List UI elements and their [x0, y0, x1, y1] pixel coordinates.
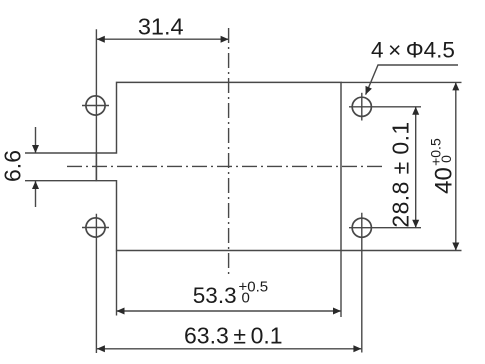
extension line tab top left	[25, 152, 96, 154]
arrowhead 53.3 right	[333, 308, 341, 315]
leader line 4xD4.5	[366, 65, 458, 95]
extension line left hole column upper	[95, 29, 97, 181]
arrowhead 40 top	[452, 82, 459, 90]
part outline (rectangle with left key tab)	[96, 82, 341, 250]
centerline horizontal dash-dot	[67, 165, 382, 167]
label 53.3 +0.5/0	[193, 279, 268, 309]
extension line right hole column lower	[361, 213, 363, 353]
hole top-right	[352, 97, 371, 116]
centerline vertical dash-dot	[228, 28, 230, 276]
arrowhead 31.4 right	[221, 36, 229, 43]
svg-text:28.8 ± 0.1: 28.8 ± 0.1	[387, 121, 413, 227]
hole bottom-left horizontal cross	[82, 227, 109, 229]
hole top-left horizontal cross	[82, 105, 109, 107]
arrowhead 28.8 bottom	[412, 220, 419, 228]
hole bottom-right	[352, 218, 371, 237]
arrowhead 63.3 left	[97, 345, 105, 352]
hole bottom-left	[86, 218, 105, 237]
svg-text:4 × Φ4.5: 4 × Φ4.5	[371, 38, 455, 63]
hole top-left	[86, 96, 105, 115]
dimension line 63.3	[97, 348, 362, 350]
arrowhead 28.8 top	[412, 107, 419, 115]
extension line right edge down	[340, 251, 342, 318]
arrowhead 6.6 top (points down)	[32, 145, 39, 153]
svg-text:53.3: 53.3	[193, 283, 237, 308]
arrowhead 6.6 bottom (points up)	[32, 181, 39, 189]
svg-text:40: 40	[430, 167, 457, 194]
arrowhead leader 4xD4.5	[366, 86, 372, 95]
svg-text:0: 0	[242, 290, 250, 307]
dimension line 31.4	[97, 38, 229, 40]
hole bottom-right horizontal cross extended to 28.8 dim	[349, 227, 421, 229]
dimension line 6.6 lower arrow line	[35, 181, 37, 207]
extension line bottom edge right	[341, 250, 462, 252]
label 40 +0.5/0 (rotated)	[427, 138, 457, 194]
extension line right hole column upper (vertical cross)	[361, 93, 363, 121]
arrowhead 31.4 left	[97, 36, 105, 43]
arrowhead 40 bottom	[452, 243, 459, 251]
extension line top edge right	[341, 81, 462, 83]
svg-text:0: 0	[438, 155, 454, 163]
dimension line 53.3	[117, 310, 342, 312]
dimension line 6.6 upper arrow line	[35, 127, 37, 153]
extension line left hole column lower	[95, 214, 97, 353]
svg-text:63.3 ± 0.1: 63.3 ± 0.1	[184, 323, 283, 349]
extension line tab bottom left	[25, 180, 96, 182]
svg-text:6.6: 6.6	[0, 150, 26, 182]
arrowhead 63.3 right	[353, 345, 361, 352]
arrowhead 53.3 left	[117, 308, 125, 315]
dimension line 40	[455, 82, 457, 250]
dimension line 28.8	[415, 107, 417, 228]
extension line left edge down	[116, 251, 118, 316]
hole top-right horizontal cross extended to 28.8 dim	[349, 106, 421, 108]
svg-text:31.4: 31.4	[138, 14, 184, 40]
